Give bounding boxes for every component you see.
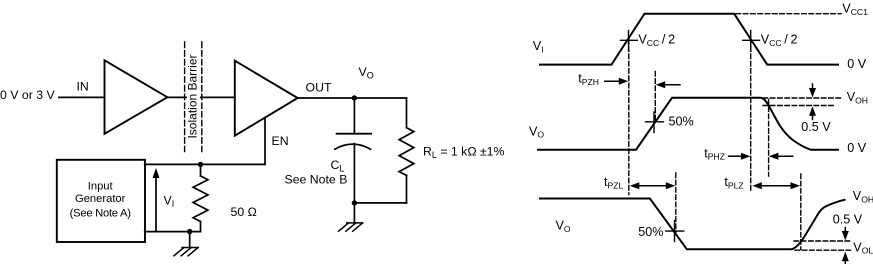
- waveform VO bottom: [540, 199, 845, 250]
- wire isolation barrier to U2 input: [201, 96, 235, 98]
- op-amp U1 buffer: [105, 60, 168, 134]
- input generator box: [57, 160, 145, 242]
- wire generator bottom: [145, 231, 201, 233]
- waveform VI: [540, 14, 838, 65]
- svg-text:OUT: OUT: [306, 81, 332, 95]
- svg-text:VOH: VOH: [853, 189, 873, 204]
- isolation barrier dashed line right: [201, 42, 203, 152]
- waveform VO middle: [538, 98, 838, 150]
- dashed level VOH: [763, 97, 842, 99]
- svg-text:EN: EN: [272, 134, 289, 148]
- op-amp U2 buffer with enable: [235, 61, 298, 136]
- resistor 50ohm top lead: [200, 164, 202, 176]
- arrow tPLZ double: [760, 185, 794, 187]
- dashed vertical VI rise 50%: [628, 40, 630, 195]
- svg-text:0 V: 0 V: [847, 57, 867, 71]
- isolation barrier dashed line left: [184, 42, 186, 152]
- svg-text:tPHZ: tPHZ: [704, 146, 725, 161]
- arrow 0.5V up (VOH-0.5): [812, 115, 814, 120]
- arrow tPHZ left-pointing: [777, 155, 793, 157]
- svg-text:VCC/2: VCC/2: [761, 32, 798, 47]
- svg-text:VI: VI: [164, 194, 175, 210]
- capacitor CL curved plate: [335, 144, 371, 149]
- dashed vertical tPZL right: [675, 173, 677, 233]
- svg-text:tPZL: tPZL: [604, 175, 623, 190]
- svg-text:Isolation Barrier: Isolation Barrier: [186, 54, 200, 138]
- wire IN input: [59, 96, 105, 98]
- svg-text:0.5 V: 0.5 V: [801, 120, 831, 134]
- arrow 0.5V up (VOL) cut at bottom: [844, 260, 846, 264]
- svg-text:VCC1: VCC1: [842, 2, 868, 17]
- dashed level VOL: [795, 249, 852, 251]
- capacitor CL bottom lead: [353, 144, 355, 203]
- svg-text:VO: VO: [556, 218, 571, 233]
- capacitor CL top lead: [353, 98, 355, 134]
- resistor RL zigzag: [399, 128, 414, 176]
- resistor RL bottom lead: [406, 175, 408, 203]
- svg-text:Input: Input: [88, 180, 114, 192]
- arrow 0.5V down (VOH): [812, 84, 814, 89]
- node VO junction dot: [352, 95, 357, 100]
- dashed vertical tPLZ right: [800, 174, 802, 250]
- svg-text:RL = 1 kΩ ±1%: RL = 1 kΩ ±1%: [423, 144, 505, 160]
- svg-text:(See Note A): (See Note A): [70, 207, 132, 219]
- cross mark VO falling 50%: [674, 221, 676, 242]
- svg-text:VOH: VOH: [847, 90, 868, 105]
- wire VO node to RL branch: [354, 97, 406, 99]
- svg-text:0 V or 3 V: 0 V or 3 V: [0, 88, 55, 102]
- dashed vertical VO rise 50%: [654, 72, 656, 123]
- dashed vertical VI fall 50%: [750, 40, 752, 191]
- svg-text:VI: VI: [533, 39, 544, 54]
- ground G2 stem: [353, 203, 355, 223]
- dashed level VOL+0.5: [794, 240, 852, 242]
- resistor RL top lead: [406, 98, 408, 128]
- cross mark VI falling 50%: [750, 31, 752, 52]
- dashed level VCC1: [736, 13, 841, 15]
- svg-text:IN: IN: [77, 80, 89, 94]
- svg-text:VOL: VOL: [853, 240, 873, 255]
- svg-text:See Note B: See Note B: [285, 172, 348, 186]
- wire EN vertical: [264, 118, 266, 165]
- svg-text:Generator: Generator: [75, 193, 126, 205]
- svg-text:50%: 50%: [638, 225, 663, 239]
- svg-text:tPZH: tPZH: [578, 72, 599, 87]
- node junction dot ground: [187, 229, 192, 234]
- node junction dot 50ohm top: [198, 162, 203, 167]
- svg-text:50%: 50%: [669, 114, 694, 128]
- dashed level VOH-0.5: [763, 105, 834, 107]
- wire generator top to EN: [145, 163, 265, 165]
- svg-text:VO: VO: [359, 65, 374, 81]
- cross mark VI rising 50%: [628, 31, 630, 52]
- arrow tPHZ right-pointing: [729, 155, 742, 157]
- svg-text:VCC/2: VCC/2: [638, 32, 675, 47]
- svg-text:0 V: 0 V: [847, 141, 867, 155]
- wire U2 output to node VO: [298, 97, 355, 99]
- ground G2 symbol: [339, 223, 363, 231]
- ground G1 symbol: [174, 248, 198, 256]
- node junction dot bottom: [352, 200, 357, 205]
- ground G1 stem: [189, 232, 191, 248]
- svg-text:CL: CL: [331, 158, 345, 174]
- resistor 50ohm bottom lead: [200, 222, 202, 232]
- arrow VI measurement: [155, 176, 157, 231]
- dashed vertical VO fall VOH-0.5: [768, 100, 770, 177]
- arrow tPZH left-pointing: [664, 84, 680, 86]
- wire bottom CL to RL: [354, 202, 406, 204]
- cross mark VO rising 50%: [653, 112, 655, 133]
- arrow 0.5V down (VOL+0.5): [844, 228, 846, 233]
- arrow tPZL double: [637, 185, 668, 187]
- resistor 50ohm zigzag: [193, 176, 208, 222]
- arrow tPZH right-pointing: [605, 80, 620, 82]
- svg-text:tPLZ: tPLZ: [724, 175, 743, 190]
- svg-text:VO: VO: [529, 124, 544, 139]
- wire U1 output to isolation barrier: [167, 96, 186, 98]
- capacitor CL flat plate: [337, 133, 371, 135]
- svg-text:0.5 V: 0.5 V: [833, 213, 863, 227]
- svg-text:50 Ω: 50 Ω: [231, 205, 257, 219]
